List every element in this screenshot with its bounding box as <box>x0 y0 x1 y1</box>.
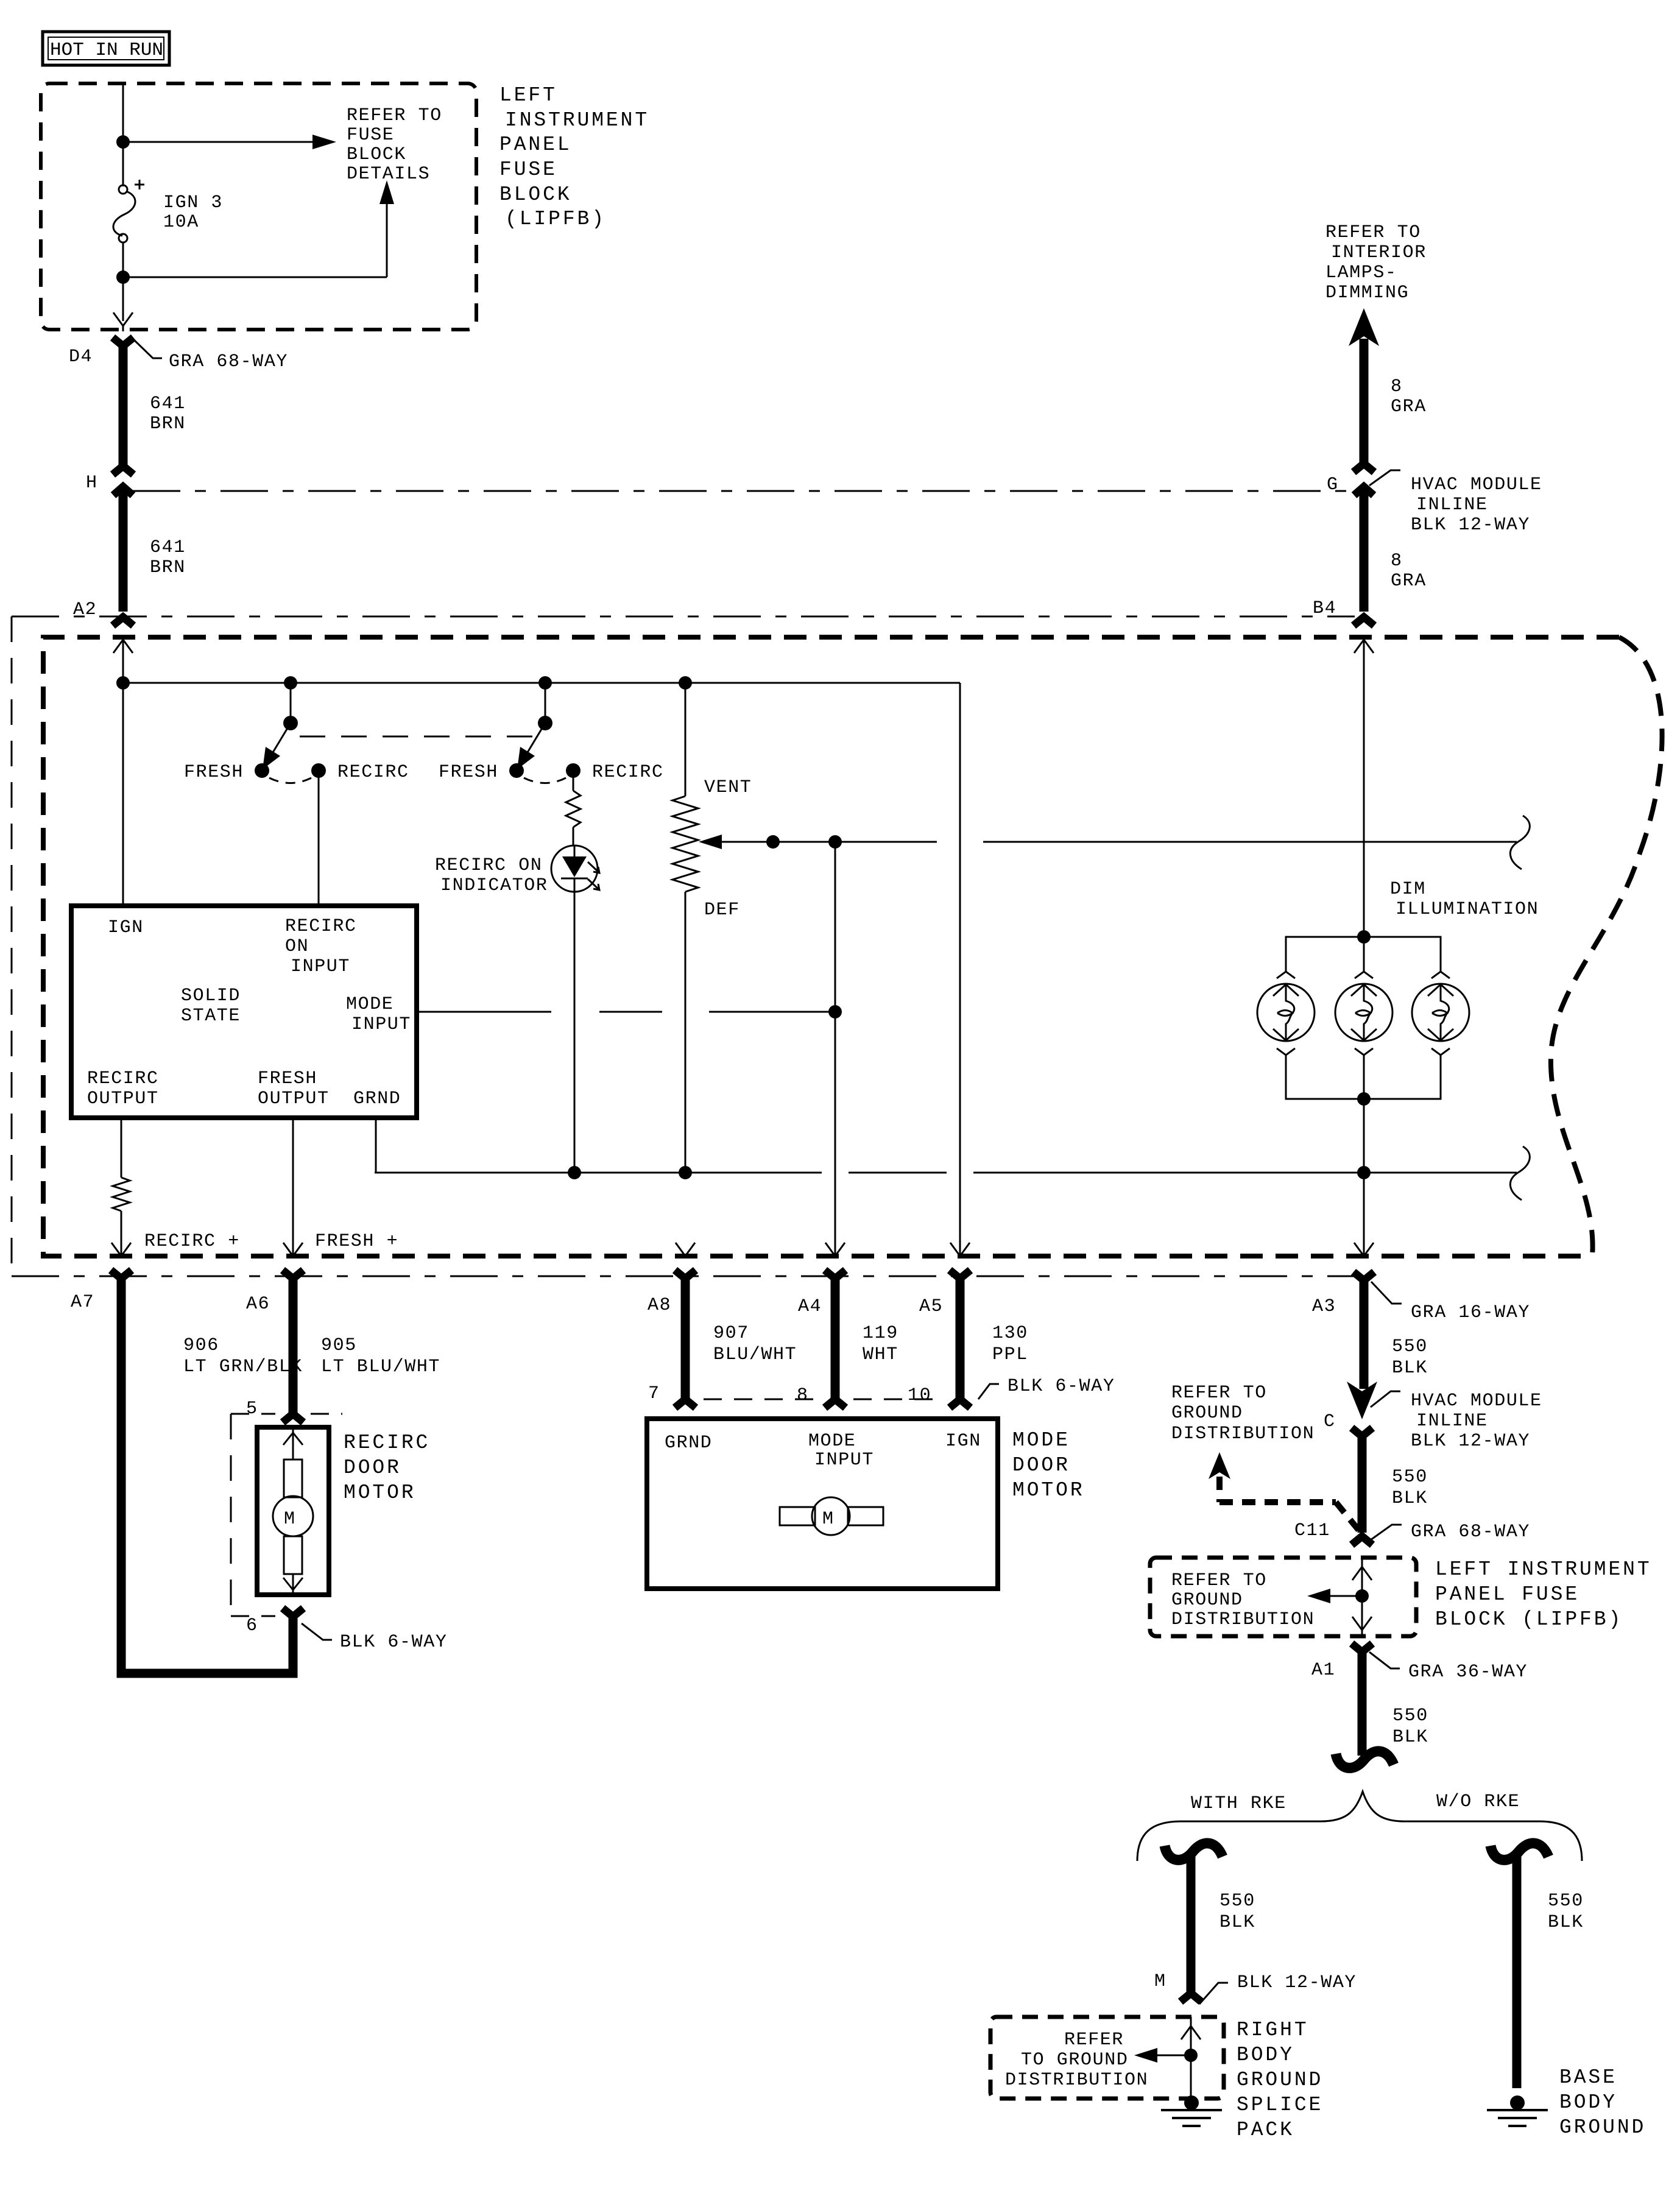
svg-text:906: 906 <box>183 1335 219 1356</box>
ground symbol (splice pack) <box>1161 2095 1222 2126</box>
svg-text:PANEL: PANEL <box>499 133 572 156</box>
connector M bowtie <box>1181 1993 1201 2002</box>
mode motor M symbol <box>780 1497 883 1535</box>
svg-text:PANEL FUSE: PANEL FUSE <box>1435 1583 1579 1606</box>
svg-text:FUSE: FUSE <box>499 158 557 181</box>
node bus at LED wire <box>568 1166 581 1179</box>
svg-text:119: 119 <box>863 1323 898 1344</box>
connector A8 bowtie <box>675 1270 696 1279</box>
wire arrow down at C <box>1347 1382 1377 1419</box>
svg-text:10A: 10A <box>163 212 199 233</box>
connector A6 bowtie <box>283 1270 303 1279</box>
torn wire end squiggle (wiper) <box>1510 816 1530 869</box>
wire lamps to ground bus and out of box <box>1363 937 1365 972</box>
svg-text:BASE: BASE <box>1559 2066 1617 2089</box>
wire A5 vertical from bus corner <box>959 683 961 1256</box>
node pot top <box>679 676 692 690</box>
svg-text:INDICATOR: INDICATOR <box>440 875 548 896</box>
svg-text:INPUT: INPUT <box>814 1450 874 1470</box>
svg-text:FUSE: FUSE <box>347 125 394 146</box>
svg-text:GRA 68-WAY: GRA 68-WAY <box>1411 1522 1530 1542</box>
wire recirc-on input down from switch1 recirc contact <box>318 771 320 906</box>
svg-text:BLK 12-WAY: BLK 12-WAY <box>1411 515 1530 535</box>
svg-text:BLK: BLK <box>1548 1912 1584 1933</box>
svg-text:130: 130 <box>992 1323 1028 1344</box>
wire recirc output with resistor <box>113 1118 130 1256</box>
svg-text:RECIRC +: RECIRC + <box>144 1231 240 1252</box>
wire exit chevron at fuse box bottom <box>113 312 133 331</box>
svg-text:GRA: GRA <box>1391 571 1427 591</box>
svg-text:A8: A8 <box>648 1295 671 1316</box>
svg-text:RECIRC: RECIRC <box>344 1432 430 1454</box>
lamp 3 <box>1412 972 1469 1055</box>
svg-text:C: C <box>1324 1411 1336 1432</box>
svg-text:DIMMING: DIMMING <box>1325 283 1409 303</box>
left boundary dashed line vertical <box>11 616 13 1276</box>
wire 550 BLK left branch <box>1187 1853 1196 1994</box>
svg-text:GRND: GRND <box>353 1089 401 1109</box>
svg-text:BLOCK (LIPFB): BLOCK (LIPFB) <box>1435 1608 1623 1631</box>
callout GRA 68-WAY <box>135 341 288 372</box>
svg-text:A6: A6 <box>246 1294 270 1315</box>
svg-text:IGN: IGN <box>108 917 144 938</box>
svg-text:BLK 12-WAY: BLK 12-WAY <box>1411 1431 1530 1452</box>
switch 1 fresh/recirc <box>255 683 326 783</box>
switch linkage dashed line <box>300 736 536 738</box>
wire 550 BLK right branch <box>1512 1853 1522 2088</box>
svg-text:REFER TO: REFER TO <box>1171 1570 1267 1591</box>
connector pin6 bowtie <box>283 1608 303 1617</box>
svg-text:907: 907 <box>713 1323 749 1344</box>
wire arrow up at H lower side <box>113 487 133 495</box>
connector H bowtie <box>113 466 133 475</box>
wire 130 PPL A5 to pin10 <box>956 1280 965 1398</box>
node mode input at A4 wire <box>828 1005 842 1019</box>
splice option hook at A1 bottom <box>1336 1751 1394 1768</box>
svg-text:DEF: DEF <box>704 900 740 920</box>
svg-text:IGN 3: IGN 3 <box>163 192 223 213</box>
svg-text:W/O RKE: W/O RKE <box>1436 1792 1520 1812</box>
svg-text:C11: C11 <box>1294 1520 1330 1541</box>
callout BLK 6-WAY (mode motor) <box>978 1376 1115 1399</box>
wire 906 LT GRN/BLK A7 elbow to pin6 <box>121 1280 293 1673</box>
svg-text:DOOR: DOOR <box>1012 1454 1070 1477</box>
svg-text:HVAC MODULE: HVAC MODULE <box>1411 1391 1542 1411</box>
svg-text:OUTPUT: OUTPUT <box>87 1089 159 1109</box>
svg-text:641: 641 <box>150 394 186 414</box>
left instrument panel fuse block (LIPFB) dashed box <box>41 83 476 330</box>
svg-text:HVAC MODULE: HVAC MODULE <box>1411 475 1542 495</box>
connector C11 bowtie <box>1352 1536 1372 1545</box>
svg-text:905: 905 <box>321 1335 357 1356</box>
callout GRA 36-WAY <box>1369 1652 1528 1682</box>
svg-text:GRA 68-WAY: GRA 68-WAY <box>169 351 288 372</box>
svg-text:MODE: MODE <box>808 1431 856 1452</box>
svg-text:GRA: GRA <box>1391 397 1427 417</box>
svg-text:REFER: REFER <box>1064 2030 1124 2050</box>
connector C11 bowtie upper <box>1352 1428 1372 1436</box>
wire resistor to LED <box>573 827 574 846</box>
potentiometer VENT/DEF <box>672 796 698 892</box>
connector B4 bowtie <box>1354 617 1374 626</box>
svg-text:550: 550 <box>1219 1891 1255 1912</box>
svg-text:DISTRIBUTION: DISTRIBUTION <box>1005 2070 1148 2091</box>
node wiper junction 1 <box>766 835 780 849</box>
connector A3 bowtie <box>1354 1272 1374 1280</box>
svg-text:550: 550 <box>1392 1706 1428 1726</box>
svg-text:LEFT: LEFT <box>499 84 557 107</box>
wire wiper line <box>719 841 1517 843</box>
svg-text:GROUND: GROUND <box>1237 2069 1323 2091</box>
wire from switch2 recirc contact to resistor <box>573 771 574 791</box>
svg-text:FRESH: FRESH <box>439 762 498 783</box>
svg-text:8: 8 <box>1391 551 1403 571</box>
svg-text:A3: A3 <box>1312 1296 1336 1317</box>
svg-text:550: 550 <box>1548 1891 1584 1912</box>
node lower junction <box>116 270 130 284</box>
svg-text:INPUT: INPUT <box>351 1014 411 1035</box>
connector G bowtie <box>1354 464 1374 472</box>
wire IGN feed down to solid state <box>122 683 124 906</box>
svg-text:LAMPS-: LAMPS- <box>1325 263 1397 283</box>
connector pin8 bowtie <box>825 1399 845 1408</box>
svg-text:FRESH: FRESH <box>258 1068 317 1089</box>
mode motor connector dashed row <box>704 1399 941 1400</box>
wire pot bottom to ground bus <box>685 892 686 1173</box>
svg-text:MODE: MODE <box>346 994 394 1015</box>
svg-text:DIM: DIM <box>1390 879 1426 900</box>
node bus left <box>116 676 130 690</box>
LIPFB internal wire with arrows <box>1307 1558 1372 1636</box>
splice pack internal wire <box>1134 2017 1201 2100</box>
svg-text:LT BLU/WHT: LT BLU/WHT <box>321 1357 440 1377</box>
wire bus to pot <box>685 683 686 796</box>
svg-text:GROUND: GROUND <box>1171 1590 1243 1611</box>
connector pin5 bowtie <box>283 1414 303 1422</box>
ground distribution dashed arrow <box>1209 1452 1360 1532</box>
wire grnd pin to ground bus corner <box>375 1118 376 1173</box>
svg-text:M: M <box>822 1509 835 1530</box>
wire entering box at A2 with chevron <box>113 640 133 683</box>
svg-text:SPLICE: SPLICE <box>1237 2094 1323 2116</box>
LIPFB lower dashed box <box>1150 1558 1416 1636</box>
svg-text:BLOCK: BLOCK <box>347 144 406 165</box>
svg-text:RIGHT: RIGHT <box>1237 2019 1309 2041</box>
lamp 2 <box>1335 972 1392 1055</box>
HOT IN RUN label box <box>43 32 169 65</box>
svg-text:REFER TO: REFER TO <box>1325 222 1421 243</box>
svg-text:BRN: BRN <box>150 557 186 578</box>
HVAC module inline connector line (H-G row) <box>133 490 1355 492</box>
svg-text:BLK: BLK <box>1392 1488 1428 1509</box>
wire arrow to REFER TO FUSE BLOCK DETAILS <box>123 135 336 149</box>
svg-text:D4: D4 <box>69 347 93 367</box>
options brace <box>1137 1792 1582 1861</box>
svg-text:RECIRC: RECIRC <box>337 762 409 783</box>
torn wire end squiggle (ground bus) <box>1510 1146 1530 1200</box>
svg-text:REFER TO: REFER TO <box>347 105 442 126</box>
option hook right branch <box>1491 1843 1548 1860</box>
wire 641 BRN upper <box>119 342 128 465</box>
wire arrow up at G lower side <box>1354 487 1374 495</box>
wire top bus <box>123 682 960 684</box>
svg-text:MODE: MODE <box>1012 1429 1070 1452</box>
svg-text:REFER TO: REFER TO <box>1171 1383 1267 1403</box>
svg-text:10: 10 <box>908 1385 931 1406</box>
wire 8 GRA upper <box>1360 339 1369 462</box>
svg-text:M: M <box>284 1509 296 1530</box>
svg-text:HOT IN RUN: HOT IN RUN <box>50 40 163 61</box>
svg-text:GRND: GRND <box>665 1433 712 1453</box>
wire arrow up to interior lamps dimming <box>1349 308 1379 346</box>
svg-text:8: 8 <box>1391 376 1403 397</box>
svg-text:DOOR: DOOR <box>344 1456 401 1479</box>
svg-text:TO GROUND: TO GROUND <box>1021 2050 1128 2071</box>
svg-text:PACK: PACK <box>1237 2119 1294 2141</box>
wire lamp top rail <box>1286 937 1441 972</box>
svg-text:GRA 16-WAY: GRA 16-WAY <box>1411 1302 1530 1323</box>
svg-text:641: 641 <box>150 537 186 558</box>
svg-text:(LIPFB): (LIPFB) <box>505 208 606 230</box>
wire 550 BLK C to C11 <box>1358 1438 1367 1533</box>
callout HVAC MODULE INLINE BLK 12-WAY <box>1369 470 1542 535</box>
svg-text:WHT: WHT <box>863 1344 898 1365</box>
solid state module box <box>71 906 417 1118</box>
HVAC control head dashed box with torn right edge <box>43 637 1619 1256</box>
svg-text:6: 6 <box>246 1615 258 1636</box>
recirc motor internals <box>273 1427 313 1595</box>
svg-text:INSTRUMENT: INSTRUMENT <box>505 109 649 132</box>
splice pack dashed box <box>990 2017 1224 2099</box>
svg-text:DISTRIBUTION: DISTRIBUTION <box>1171 1424 1315 1444</box>
connector A1 bowtie <box>1352 1643 1372 1652</box>
node bus at pot wire <box>679 1166 692 1179</box>
wire 119 WHT A4 to pin8 <box>831 1280 840 1398</box>
node switch1 top <box>284 676 297 690</box>
svg-text:BLU/WHT: BLU/WHT <box>713 1344 797 1365</box>
svg-text:RECIRC: RECIRC <box>285 916 357 937</box>
svg-text:BLK 6-WAY: BLK 6-WAY <box>340 1632 447 1653</box>
wire fresh output down <box>292 1118 294 1256</box>
svg-text:RECIRC: RECIRC <box>592 762 664 783</box>
wire below fuse <box>122 242 124 321</box>
svg-text:A5: A5 <box>919 1296 943 1317</box>
node lamp rail bottom <box>1357 1092 1371 1106</box>
resistor above LED <box>566 791 581 827</box>
svg-text:MOTOR: MOTOR <box>344 1481 416 1504</box>
svg-text:DETAILS: DETAILS <box>347 164 430 185</box>
LED recirc on indicator <box>551 846 599 892</box>
svg-text:BLK: BLK <box>1392 1358 1428 1379</box>
lamp 1 <box>1257 972 1315 1055</box>
wire 550 BLK A3 to C <box>1360 1282 1369 1389</box>
callout GRA 68-WAY (C11) <box>1371 1522 1530 1542</box>
svg-text:INTERIOR: INTERIOR <box>1331 242 1427 263</box>
svg-text:PPL: PPL <box>992 1344 1028 1365</box>
svg-text:BLOCK: BLOCK <box>499 183 572 206</box>
node wiper junction A4 <box>828 835 842 849</box>
svg-text:GRA 36-WAY: GRA 36-WAY <box>1408 1662 1528 1682</box>
connector row A2-B4 dashed line <box>12 616 1355 618</box>
callout BLK 12-WAY <box>1199 1972 1357 2004</box>
connector A4 bowtie <box>825 1270 845 1279</box>
connector A7 bowtie <box>111 1270 132 1279</box>
svg-text:M: M <box>1154 1971 1166 1992</box>
wire 905 LT BLU/WHT A6 to pin5 <box>289 1280 298 1413</box>
wire lamp bottom rail <box>1286 1055 1441 1099</box>
svg-text:FRESH +: FRESH + <box>315 1231 398 1252</box>
svg-text:BODY: BODY <box>1237 2044 1294 2066</box>
svg-text:INPUT: INPUT <box>291 956 350 977</box>
svg-text:FRESH: FRESH <box>184 762 244 783</box>
fuse IGN 3 10A <box>113 180 144 242</box>
svg-text:LT GRN/BLK: LT GRN/BLK <box>183 1357 303 1377</box>
svg-text:VENT: VENT <box>704 777 752 798</box>
wire ground bus with hops <box>375 1172 1517 1174</box>
wire 641 BRN lower <box>119 491 128 612</box>
connector row A7-A3 dashed line <box>12 1276 1355 1277</box>
svg-text:LEFT INSTRUMENT: LEFT INSTRUMENT <box>1435 1558 1652 1581</box>
svg-text:7: 7 <box>648 1383 660 1404</box>
node lamp rail top <box>1357 930 1371 944</box>
svg-text:A7: A7 <box>71 1292 94 1313</box>
svg-text:INLINE: INLINE <box>1416 1411 1488 1432</box>
connector A2 bowtie <box>113 617 133 626</box>
wire 550 BLK A1 down <box>1358 1653 1367 1756</box>
svg-text:BLK: BLK <box>1392 1727 1428 1748</box>
svg-text:ON: ON <box>285 936 309 957</box>
option hook left branch <box>1165 1843 1223 1860</box>
node junction to refer-arrow <box>116 135 130 149</box>
svg-text:MOTOR: MOTOR <box>1012 1479 1085 1502</box>
switch 2 fresh/recirc <box>509 683 581 783</box>
wire mode input line with hops <box>417 1011 835 1013</box>
mode door motor box <box>647 1419 998 1589</box>
wiper arrow <box>699 835 722 849</box>
connector pin7 bowtie <box>675 1399 696 1408</box>
wire 907 BLU/WHT A8 to pin7 <box>681 1280 690 1398</box>
wire from box top into fuse <box>122 85 124 186</box>
recirc motor connector dashed boundary <box>231 1414 342 1616</box>
svg-text:H: H <box>86 473 98 493</box>
svg-text:GROUND: GROUND <box>1171 1403 1243 1424</box>
svg-text:BLK: BLK <box>1219 1912 1255 1933</box>
recirc door motor box <box>257 1427 329 1595</box>
svg-text:RECIRC ON: RECIRC ON <box>435 855 542 876</box>
node bus at dim illumination wire <box>1357 1166 1371 1179</box>
svg-text:BLK 12-WAY: BLK 12-WAY <box>1237 1972 1357 1993</box>
svg-text:STATE: STATE <box>181 1006 241 1026</box>
svg-text:SOLID: SOLID <box>181 986 241 1006</box>
svg-text:5: 5 <box>246 1399 258 1419</box>
wire A4 vertical <box>835 842 836 1256</box>
svg-text:WITH RKE: WITH RKE <box>1191 1793 1286 1814</box>
svg-text:INLINE: INLINE <box>1416 495 1488 515</box>
wire B4 into box down to lamps <box>1354 640 1374 937</box>
svg-text:BRN: BRN <box>150 414 186 434</box>
connector A5 bowtie <box>950 1270 970 1279</box>
svg-text:OUTPUT: OUTPUT <box>258 1089 330 1109</box>
svg-text:DISTRIBUTION: DISTRIBUTION <box>1171 1609 1315 1630</box>
svg-text:550: 550 <box>1392 1336 1428 1357</box>
connector pin10 bowtie <box>950 1399 970 1408</box>
callout BLK 6-WAY (recirc motor) <box>302 1623 447 1653</box>
svg-text:ILLUMINATION: ILLUMINATION <box>1396 899 1539 920</box>
wire 8 GRA lower <box>1360 491 1369 612</box>
svg-text:IGN: IGN <box>945 1431 981 1452</box>
callout HVAC MODULE INLINE BLK 12-WAY (C) <box>1371 1391 1542 1452</box>
svg-text:BODY: BODY <box>1559 2091 1617 2114</box>
svg-text:G: G <box>1327 475 1339 495</box>
connector D4 bowtie <box>113 337 133 346</box>
torn right edge curve <box>1551 637 1662 1256</box>
ground symbol (base body ground) <box>1487 2095 1548 2126</box>
svg-text:GROUND: GROUND <box>1559 2116 1646 2139</box>
svg-text:8: 8 <box>797 1385 809 1406</box>
wire LED to ground bus <box>574 892 576 1173</box>
svg-text:RECIRC: RECIRC <box>87 1068 159 1089</box>
svg-text:BLK 6-WAY: BLK 6-WAY <box>1008 1376 1115 1397</box>
callout GRA 16-WAY <box>1371 1282 1530 1323</box>
svg-text:550: 550 <box>1392 1467 1428 1488</box>
svg-text:A4: A4 <box>798 1296 822 1317</box>
svg-text:A1: A1 <box>1311 1660 1335 1681</box>
wire exit chevrons at box bottom <box>111 1243 131 1256</box>
node switch2 top <box>538 676 552 690</box>
wire up-arrow to details <box>123 180 394 277</box>
